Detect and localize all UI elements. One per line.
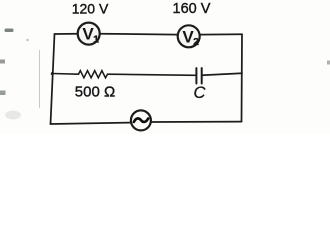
scan smudge left edge [5,29,14,33]
wire capacitor to right vertical [202,73,242,75]
scan scratch [39,50,41,108]
wire V2 to top-right [200,33,243,35]
scan smudge bottom left [5,111,21,120]
junction dot [51,72,54,75]
svg-text:C: C [194,84,206,102]
wire bottom-left to source [51,123,132,124]
voltmeter V2 [178,25,200,48]
wire left vertical [51,34,55,124]
wire right vertical [241,34,244,121]
wire source to bottom-right [151,121,242,123]
svg-text:500 Ω: 500 Ω [75,83,115,100]
svg-text:2: 2 [193,36,199,48]
scan dot right edge [327,61,330,65]
svg-text:160 V: 160 V [173,1,211,17]
resistor R 500 ohm [79,71,108,78]
scan smudge left edge 2 [0,60,5,64]
wire middle-left to resistor [52,73,78,76]
wire resistor to capacitor [108,74,197,75]
ac source [131,110,151,130]
svg-text:1: 1 [93,33,99,45]
capacitor C plates [196,68,201,83]
wire top-left to V1 [55,33,78,35]
scan smudge left edge 3 [0,91,6,96]
scan dot [26,39,28,41]
wire V1 to V2 [100,33,178,36]
voltmeter V1 [78,23,100,46]
svg-text:120 V: 120 V [72,1,109,17]
